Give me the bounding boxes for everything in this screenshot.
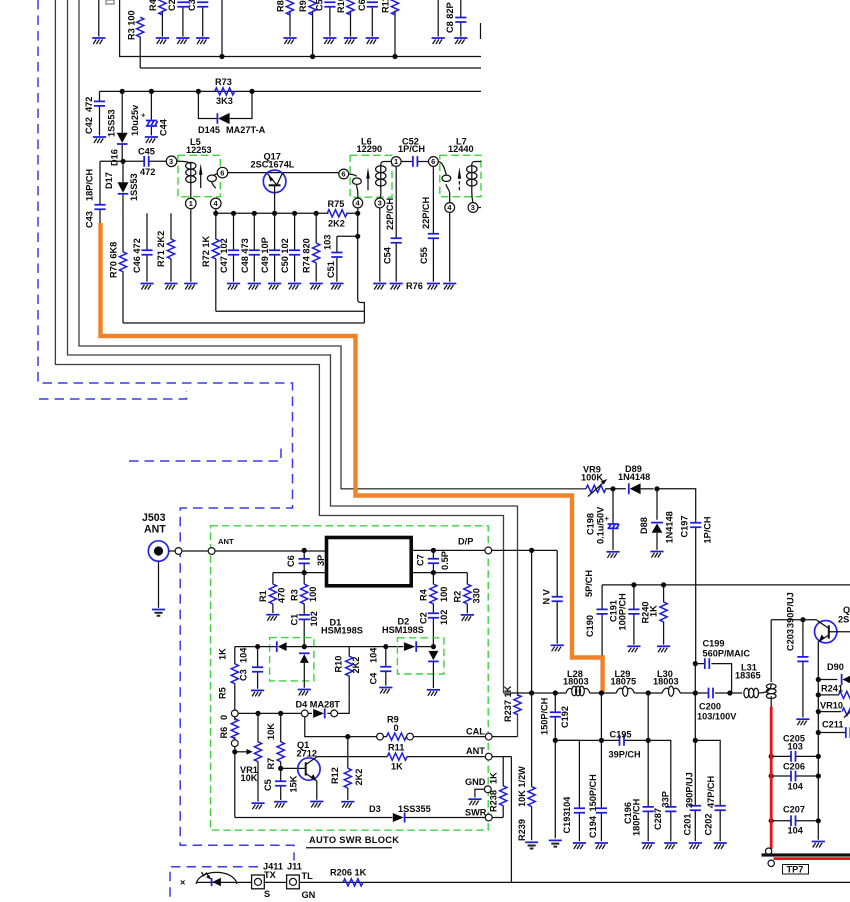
inductor L6 arrow	[366, 167, 369, 190]
svg-text:102: 102	[439, 610, 449, 625]
inductor L30 18003	[653, 669, 680, 696]
junction	[249, 89, 254, 94]
capacitor C42 472	[84, 91, 106, 143]
resistor R237 1K	[503, 685, 521, 722]
junction	[149, 89, 154, 94]
ground	[432, 38, 445, 44]
svg-text:R72 1K: R72 1K	[201, 235, 211, 267]
pin circle	[208, 548, 215, 555]
svg-text:R7: R7	[266, 758, 276, 770]
wire D4 branch down	[305, 717, 377, 737]
wire R9 to CAL	[413, 736, 485, 738]
capacitor C205 103	[771, 733, 818, 762]
resistor R206 1K	[330, 868, 367, 887]
svg-text:SWR: SWR	[465, 807, 487, 817]
capacitor C200 103/100V	[697, 688, 737, 722]
capacitor C52 1P/CH	[398, 136, 425, 167]
svg-text:C48 473: C48 473	[240, 238, 250, 273]
svg-text:1K: 1K	[218, 648, 228, 660]
capacitor C8 82P	[445, 0, 467, 44]
wire VR9 to D89	[606, 488, 626, 490]
svg-text:18075: 18075	[611, 677, 637, 687]
junction	[345, 734, 350, 739]
svg-text:C2: C2	[167, 0, 177, 11]
junction	[599, 738, 604, 743]
svg-text:D3: D3	[369, 804, 381, 814]
resistor R9 0 jumper	[377, 715, 414, 741]
svg-text:C5: C5	[315, 0, 325, 11]
inductor L28 18003	[563, 669, 590, 696]
svg-text:1: 1	[189, 199, 193, 208]
svg-text:104: 104	[369, 647, 379, 663]
capacitor C190 5P/CH	[584, 570, 608, 656]
junction	[816, 730, 821, 735]
wire pin3 stub cut	[478, 207, 481, 209]
junction	[816, 709, 821, 714]
wire ANT column to bottom	[510, 757, 512, 883]
svg-text:3P: 3P	[316, 555, 326, 566]
svg-text:C4: C4	[369, 672, 379, 685]
capacitor C201 390P/UJ	[683, 693, 702, 849]
wire to C197	[657, 489, 696, 523]
inductor L5 arrow	[199, 164, 202, 189]
transistor Q1 2712	[297, 740, 324, 808]
junction	[431, 570, 436, 575]
diode D89 1N4148	[618, 464, 654, 495]
svg-text:VR10: VR10	[820, 700, 843, 710]
diode D2b	[428, 651, 439, 688]
svg-text:C193: C193	[562, 812, 572, 834]
svg-text:6: 6	[431, 157, 435, 166]
junction	[693, 738, 698, 743]
cut frame mark	[480, 23, 482, 39]
test point TP7	[762, 848, 850, 874]
diode D1a	[277, 641, 287, 652]
svg-text:MA27T-A: MA27T-A	[226, 125, 266, 135]
svg-text:103: 103	[323, 235, 333, 250]
bus wire A	[55, 0, 503, 693]
svg-text:C287: C287	[653, 808, 663, 830]
label AUTO SWR BLOCK	[306, 835, 399, 848]
wire top distribution rail	[602, 584, 850, 586]
node D/P	[458, 537, 492, 554]
resistor R6 0 jumper	[219, 710, 238, 747]
capacitor C207 104	[771, 804, 818, 835]
svg-text:33P: 33P	[661, 791, 671, 807]
svg-text:GND: GND	[465, 777, 486, 787]
potentiometer VR1 10K	[237, 713, 265, 809]
svg-text:0: 0	[219, 715, 229, 720]
ground	[92, 38, 105, 44]
capacitor C191 100P/CH	[609, 585, 641, 652]
wire coupler out	[411, 549, 485, 551]
resistor R240 1K	[641, 585, 671, 652]
wire pin4 stub	[215, 209, 217, 214]
capacitor C3 104	[239, 647, 265, 697]
wire L6 pin4 stub	[357, 208, 359, 213]
resistor R7 10K	[266, 713, 284, 769]
junction	[314, 211, 319, 216]
capacitor C51 103	[323, 235, 344, 290]
node SWR	[465, 807, 503, 821]
junction	[599, 690, 604, 695]
svg-text:R11: R11	[388, 743, 404, 753]
resistor R2 330	[453, 573, 482, 621]
ground stub x98.8	[98, 0, 100, 37]
svg-text:22P/CH: 22P/CH	[385, 197, 395, 230]
resistor R10 2K2	[334, 647, 362, 698]
svg-text:N V: N V	[542, 588, 552, 604]
svg-text:1N4148: 1N4148	[618, 472, 650, 482]
svg-text:330: 330	[472, 588, 482, 603]
svg-text:C203: C203	[786, 629, 796, 651]
diode pair D2 box	[397, 638, 444, 674]
svg-text:2S: 2S	[838, 615, 849, 625]
junction	[816, 773, 821, 778]
junction	[219, 54, 224, 59]
svg-text:D17: D17	[104, 172, 114, 189]
wire feedback U path	[123, 213, 364, 323]
wire C45 rail	[100, 160, 166, 162]
transformer coupler box	[327, 538, 412, 586]
svg-text:S: S	[264, 889, 270, 899]
inductor L31 18365	[731, 620, 776, 707]
svg-text:18003: 18003	[653, 677, 679, 687]
capacitor C7 0.5P	[416, 550, 451, 572]
svg-text:2K2: 2K2	[354, 769, 364, 786]
capacitor C6 3P	[286, 550, 326, 572]
svg-text:Q: Q	[843, 605, 850, 615]
svg-text:1SS355: 1SS355	[398, 804, 431, 814]
resistor R8	[276, 0, 297, 44]
svg-text:C206: C206	[783, 762, 805, 772]
resistor R3 100 swr	[290, 573, 319, 614]
svg-text:GN: GN	[302, 890, 316, 900]
svg-text:1N4148: 1N4148	[665, 511, 675, 543]
junction	[727, 690, 732, 695]
resistor R71 2K2	[156, 213, 178, 289]
resistor R5 1K	[218, 647, 239, 710]
junction	[196, 89, 201, 94]
svg-text:R206 1K: R206 1K	[330, 868, 367, 878]
svg-text:C5: C5	[263, 779, 273, 791]
earth ground J503	[152, 610, 165, 616]
resistor R1 470	[258, 573, 287, 621]
svg-text:18003: 18003	[563, 677, 589, 687]
svg-text:C3: C3	[239, 669, 249, 681]
ground	[812, 842, 825, 848]
capacitor C2 102 swr	[419, 610, 450, 647]
ground	[427, 690, 440, 696]
wire C51 stub	[337, 235, 358, 237]
resistor R9	[298, 0, 316, 57]
pin 3 L6	[375, 198, 385, 208]
junction	[431, 548, 436, 553]
svg-text:1P/CH: 1P/CH	[703, 516, 713, 543]
svg-text:390P/UJ: 390P/UJ	[685, 772, 695, 808]
svg-text:C44: C44	[159, 118, 169, 136]
potentiometer VR9 100K	[581, 464, 607, 496]
svg-text:C49 10P: C49 10P	[260, 237, 270, 273]
wire coupler secondary rail	[273, 572, 467, 574]
inductor L6 12290 box	[350, 155, 392, 197]
diode D88 1N4148	[639, 489, 675, 558]
junction	[800, 617, 805, 622]
svg-text:R4: R4	[148, 0, 158, 11]
inductor L7 arrow	[458, 167, 461, 190]
capacitor C49 10P	[260, 213, 281, 289]
capacitor C197 1P/CH	[680, 516, 713, 664]
svg-text:C190: C190	[585, 615, 595, 637]
svg-text:C195: C195	[610, 730, 632, 740]
svg-text:103: 103	[788, 741, 803, 751]
earth ground	[549, 840, 562, 846]
cut label box fragment top-left	[106, 0, 114, 4]
resistor R4 100 swr	[419, 573, 450, 612]
svg-text:+: +	[141, 111, 146, 120]
svg-text:C192: C192	[560, 706, 570, 728]
svg-text:22P/CH: 22P/CH	[421, 196, 431, 229]
svg-text:6: 6	[220, 168, 224, 177]
svg-text:D145: D145	[198, 125, 220, 135]
svg-text:C42: C42	[84, 117, 94, 134]
junction	[646, 690, 651, 695]
junction	[278, 711, 283, 716]
svg-text:C6: C6	[357, 0, 367, 11]
junction	[231, 211, 236, 216]
svg-text:1K: 1K	[489, 772, 499, 784]
block border dashed blue stub lower	[129, 447, 281, 461]
junction	[255, 711, 260, 716]
junction	[255, 644, 260, 649]
potentiometer VR10	[818, 700, 850, 717]
svg-text:0: 0	[394, 723, 399, 733]
inductor L5 primary	[177, 161, 196, 198]
svg-text:C207: C207	[783, 804, 805, 814]
node CAL	[466, 727, 518, 740]
junction	[355, 211, 360, 216]
junction	[816, 754, 821, 759]
capacitor C44 10u25v electrolytic	[130, 91, 169, 143]
inductor L7 primary	[467, 162, 481, 203]
svg-text:C50 102: C50 102	[280, 238, 290, 273]
svg-text:472: 472	[84, 97, 94, 112]
inductor L29 18075	[611, 669, 637, 696]
junction	[302, 548, 307, 553]
junction	[355, 234, 360, 239]
connector J503 ANT	[142, 512, 169, 608]
resistor R70 6K8	[109, 213, 127, 323]
junction	[610, 486, 615, 491]
connector J11 TL	[287, 862, 316, 900]
wire emitter rail	[216, 212, 358, 214]
pin 3 L7	[468, 203, 478, 213]
junction	[769, 818, 774, 823]
svg-text:D4 MA28T: D4 MA28T	[296, 699, 341, 709]
wire L6 pin3 to ground	[379, 208, 381, 282]
capacitor C47 102	[219, 213, 240, 289]
junction	[646, 738, 651, 743]
svg-text:C54: C54	[383, 246, 393, 264]
wire C192 column to earth	[554, 740, 556, 838]
pin circle	[175, 548, 182, 555]
connector J411 TX	[252, 862, 283, 899]
svg-text:180P/CH: 180P/CH	[632, 798, 642, 836]
pin 3	[166, 156, 177, 167]
svg-text:R237 1K: R237 1K	[503, 685, 513, 722]
capacitor C43 18P/CH	[85, 161, 106, 228]
svg-text:1P/CH: 1P/CH	[398, 144, 425, 154]
block border dashed blue TX relay box	[170, 867, 258, 902]
svg-text:C194: C194	[588, 815, 598, 838]
diode D16 1SS53	[107, 91, 128, 166]
svg-text:R73: R73	[215, 77, 232, 87]
transistor Q17 2SC1674L	[251, 152, 295, 214]
svg-text:ANT: ANT	[466, 746, 485, 756]
junction	[816, 818, 821, 823]
svg-text:R239: R239	[517, 819, 527, 841]
wire R6 to wiper and D3	[234, 747, 236, 818]
svg-text:C201: C201	[683, 814, 693, 836]
resistor R10	[336, 0, 357, 44]
svg-text:C7: C7	[416, 554, 426, 566]
svg-text:C55: C55	[419, 247, 429, 264]
capacitor C3	[187, 0, 209, 44]
capacitor C5 15K	[263, 768, 299, 807]
svg-text:1SS53: 1SS53	[129, 173, 139, 201]
capacitor C45 472	[138, 147, 155, 177]
svg-text:104: 104	[239, 647, 249, 663]
wire L7 pin4 to ground	[449, 212, 451, 281]
resistor R238 1K	[489, 757, 507, 818]
svg-text:47P/CH: 47P/CH	[706, 775, 716, 808]
svg-text:5P/CH: 5P/CH	[584, 570, 594, 597]
capacitor C202 47P/CH	[695, 740, 727, 849]
block border dashed blue stub upper	[39, 391, 187, 399]
junction	[631, 582, 636, 587]
svg-text:R12: R12	[330, 767, 340, 784]
capacitor C193 104	[555, 740, 586, 849]
svg-text:18365: 18365	[735, 671, 761, 681]
transistor Q 2S	[815, 605, 850, 840]
svg-text:C45: C45	[138, 147, 155, 157]
capacitor NV	[542, 550, 564, 651]
svg-text:10K: 10K	[241, 773, 258, 783]
svg-text:100: 100	[308, 587, 318, 602]
junction	[252, 211, 257, 216]
svg-text:C198: C198	[586, 513, 596, 535]
diode D3 1SS355	[369, 804, 431, 823]
block border dashed blue main	[38, 0, 294, 861]
junction	[310, 54, 315, 59]
svg-text:ANT: ANT	[144, 524, 166, 536]
svg-text:TX: TX	[264, 870, 277, 880]
svg-text:103/100V: 103/100V	[697, 712, 737, 722]
svg-text:1: 1	[394, 157, 398, 166]
pin 4 L7	[445, 203, 455, 213]
capacitor C5	[315, 0, 337, 44]
svg-text:C200: C200	[699, 701, 721, 711]
capacitor C198 0.1u/50V electrolytic	[586, 489, 620, 558]
svg-text:R74 820: R74 820	[302, 238, 312, 273]
junction	[431, 644, 436, 649]
svg-text:R9 2: R9 2	[298, 0, 308, 12]
svg-text:R8 1: R8 1	[276, 0, 286, 12]
svg-text:R2: R2	[453, 591, 463, 603]
inductor L7 secondary	[438, 162, 451, 203]
svg-text:0.1u/50V: 0.1u/50V	[596, 506, 606, 544]
inductor L6 primary	[376, 162, 392, 199]
svg-text:2K2: 2K2	[351, 657, 361, 674]
wire second rail	[140, 37, 481, 69]
svg-text:C197: C197	[680, 516, 690, 538]
wire orange highlighted path	[101, 223, 603, 693]
svg-text:C199: C199	[703, 638, 725, 648]
svg-text:3: 3	[471, 203, 475, 212]
junction	[553, 690, 558, 695]
capacitor C195 39P/CH	[609, 730, 642, 760]
svg-text:150P/CH: 150P/CH	[540, 697, 550, 735]
wire top frame inner vertical	[221, 0, 223, 57]
svg-text:15K: 15K	[289, 775, 299, 792]
svg-text:C2: C2	[419, 612, 429, 624]
capacitor C194 150P/CH	[588, 693, 608, 849]
capacitor C1 102	[290, 611, 320, 646]
ground	[298, 690, 311, 696]
diode D90	[818, 662, 850, 685]
wire D3 rail SWR	[235, 817, 485, 819]
svg-text:R238: R238	[489, 790, 499, 812]
diode pair D1 box	[270, 638, 314, 681]
svg-text:AUTO SWR BLOCK: AUTO SWR BLOCK	[309, 835, 399, 845]
capacitor C287 33P	[648, 740, 677, 849]
inductor L5 12253 box	[178, 155, 220, 196]
svg-text:R76: R76	[406, 281, 423, 291]
svg-text:C3: C3	[187, 0, 197, 11]
svg-text:12253: 12253	[186, 145, 212, 155]
svg-text:TP7: TP7	[787, 864, 804, 874]
capacitor C2	[167, 0, 189, 44]
svg-text:3: 3	[378, 199, 382, 208]
resistor R239 10K 1/2W	[517, 693, 538, 849]
svg-text:2SC1674L: 2SC1674L	[251, 160, 295, 170]
capacitor C206 104	[771, 762, 818, 792]
pin 1	[186, 198, 197, 209]
capacitor C46 472	[132, 213, 154, 289]
svg-text:R1: R1	[258, 590, 268, 602]
junction	[769, 754, 774, 759]
resistor R11 1K	[387, 743, 407, 772]
capacitor C55 22P/CH	[419, 166, 440, 289]
junction	[529, 690, 534, 695]
svg-text:D/P: D/P	[458, 537, 473, 547]
pin 4	[211, 198, 222, 209]
svg-text:R71 2K2: R71 2K2	[156, 231, 166, 267]
resistor R241	[818, 683, 850, 698]
pin 6 L5	[217, 167, 228, 178]
wire C195 rail	[555, 739, 648, 741]
svg-text:C211: C211	[822, 720, 843, 730]
wire Q1 base	[281, 767, 306, 769]
wire L31 top rail	[771, 619, 817, 621]
svg-text:CAL: CAL	[466, 727, 485, 737]
svg-text:12290: 12290	[357, 144, 383, 154]
resistor R11	[381, 0, 399, 57]
junction	[816, 677, 821, 682]
svg-text:C6: C6	[286, 555, 296, 567]
svg-text:C43: C43	[85, 211, 95, 228]
svg-text:1K: 1K	[649, 605, 659, 617]
